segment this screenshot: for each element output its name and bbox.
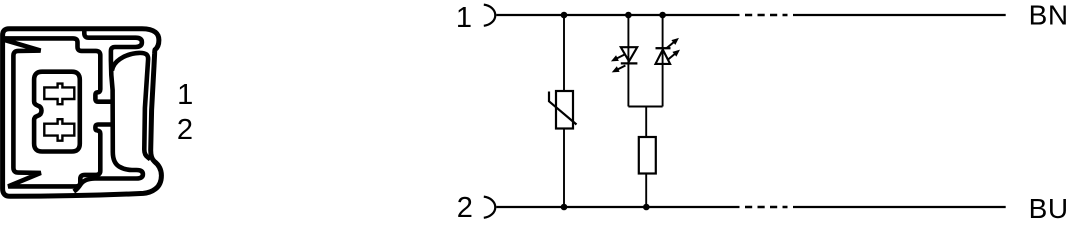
LED D1 wire [627, 15, 629, 107]
connector pin 1 contact [44, 84, 74, 105]
LED D1 triangle [621, 47, 637, 61]
varistor branch wire bottom [563, 129, 565, 208]
junction dot top LED1 [625, 12, 632, 19]
connector latch slot line [112, 53, 150, 160]
LED pair bottom connector wire [628, 106, 662, 108]
resistor stub bottom [645, 174, 647, 208]
wire BN solid right [793, 14, 1006, 16]
svg-text:1: 1 [177, 79, 193, 111]
pin 2 socket contact [484, 197, 495, 218]
junction dot bottom varistor [561, 204, 568, 211]
connector pin holder [34, 72, 80, 152]
wire BN dashed break [745, 14, 788, 16]
varistor RV body [556, 91, 573, 129]
resistor stub top [645, 107, 647, 138]
svg-text:BN: BN [1029, 0, 1069, 31]
junction dot top LED2 [659, 12, 666, 19]
junction dot top varistor [561, 12, 568, 19]
wire BN solid left [496, 14, 739, 16]
wire BU dashed break [745, 206, 788, 208]
junction dot bottom resistor [643, 204, 650, 211]
LED D1 light arrow lower [610, 63, 626, 75]
varistor branch wire top [563, 15, 565, 91]
LED D2 light arrow upper [664, 35, 681, 50]
LED D2 light arrow lower [665, 47, 682, 62]
LED D2 wire [662, 15, 664, 107]
pin 1 socket contact [484, 5, 495, 26]
svg-text:BU: BU [1029, 193, 1069, 224]
connector pin 2 contact [44, 119, 74, 141]
svg-text:2: 2 [457, 192, 473, 224]
LED D2 triangle [656, 50, 671, 64]
LED D1 cathode bar [621, 62, 638, 64]
wire BU solid left [496, 206, 739, 208]
varistor RV diagonal [549, 92, 577, 125]
connector housing outline [3, 29, 162, 197]
connector latch arm [74, 30, 143, 192]
connector cavity outline [5, 38, 114, 186]
resistor R body [639, 137, 656, 174]
wire BU solid right [793, 206, 1006, 208]
svg-text:1: 1 [456, 2, 472, 34]
LED D1 light arrow upper [610, 52, 626, 64]
LED D2 cathode bar [656, 47, 671, 49]
svg-text:2: 2 [177, 114, 193, 146]
